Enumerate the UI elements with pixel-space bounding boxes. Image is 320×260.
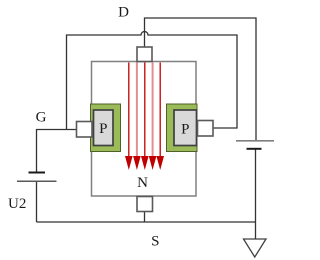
svg-text:D: D	[118, 5, 129, 21]
svg-text:U2: U2	[8, 196, 26, 212]
svg-text:N: N	[137, 175, 148, 191]
svg-text:G: G	[36, 110, 47, 126]
svg-text:P: P	[99, 121, 107, 137]
svg-text:P: P	[181, 122, 189, 138]
svg-text:S: S	[151, 234, 159, 250]
